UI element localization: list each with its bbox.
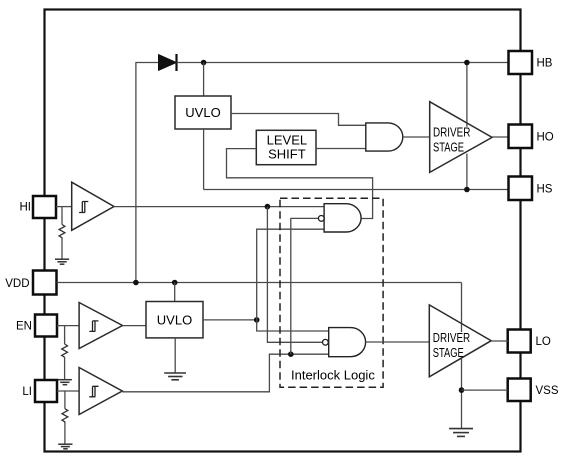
schmitt buffer (LI input) [79,368,122,415]
svg-text:VDD: VDD [5,278,29,290]
interlock logic dashed box [280,198,383,387]
ground: EN pulldown [58,380,72,385]
pin VDD [33,271,57,295]
svg-text:UVLO: UVLO [157,312,192,327]
svg-text:Interlock Logic: Interlock Logic [291,368,375,383]
junction dot: diode/UVLO node [201,60,207,66]
pin HI [33,196,56,218]
pin HO [509,125,533,149]
wire: HI pin to schmitt buffer [56,206,72,208]
svg-text:EN: EN [16,321,32,333]
wire: UVLO2 output to interlock enable node [203,319,257,321]
schmitt symbol EN [89,321,98,332]
AND gate (interlock, low side) [329,328,366,357]
junction dot HI branch [265,204,271,210]
ground: VSS [449,429,473,437]
schmitt buffer (EN input) [79,303,122,349]
wire: AND output to driver stage [403,136,430,138]
junction dot enable node [254,317,260,323]
svg-text:UVLO: UVLO [185,105,220,120]
svg-text:VSS: VSS [536,385,559,397]
AND gate U3 (high-side UVLO gating) [366,123,403,151]
UVLO block (low side) [146,302,203,338]
AND gate (interlock, high side) [324,204,361,232]
svg-text:STAGE: STAGE [433,345,464,360]
junction dot LI branch [288,351,294,357]
junction dot HB rail [464,60,470,66]
wire: EN buffer to low-side UVLO [123,325,147,327]
wire: VDD rail [57,282,462,284]
pin LI [35,380,57,402]
wire: level shift input from interlock AND output [227,149,373,219]
wire: HS rail to HS pin [204,189,509,191]
svg-text:LO: LO [536,336,551,348]
wire: driver output to LO pin [491,340,508,342]
svg-text:HI: HI [20,202,32,214]
wire: low-side gate output to driver [366,341,430,343]
wire: EN pin to buffer [57,325,79,327]
wire: LI branch to high-side gate inverted input [291,218,319,354]
wire: diode anode from VDD riser [136,63,160,283]
pin HS [509,177,533,201]
pin EN [35,315,57,337]
svg-text:HO: HO [537,131,554,143]
wire: LEVEL SHIFT output to AND gate [316,148,366,150]
schmitt symbol HI [79,202,88,213]
svg-text:DRIVER: DRIVER [433,330,470,345]
wire: HB-HS rail through driver [466,63,468,190]
wire: UVLO2 to ground [174,338,176,373]
svg-text:HS: HS [537,183,553,195]
junction dot VDD/UVLO2 [172,280,178,286]
wire: enable to high-side gate input [257,229,324,320]
inverting bubble on high-side gate [318,216,324,222]
svg-text:LEVEL: LEVEL [267,132,307,147]
wire: LI buffer output to low-side gate [122,354,328,392]
pin LO [508,330,531,353]
svg-text:SHIFT: SHIFT [268,147,306,162]
pin VSS [508,379,531,402]
inverting bubble on low-side gate [323,339,329,345]
resistor: LI pulldown [62,391,68,444]
driver stage text (high side) [432,125,473,155]
wire: HB rail (diode cathode to HB pin) [177,62,509,64]
wire: UVLO output to AND gate (stepped) [231,114,366,126]
svg-text:STAGE: STAGE [433,140,464,155]
wire: VDD rail down through low-side driver to ground [461,283,463,429]
ground: HI pulldown [55,259,69,264]
wire: VSS node to VSS pin [462,389,508,391]
wire: HI branch down to low-side gate inverted input [267,207,322,343]
driver stage triangle (high side) [430,102,492,173]
pin HB [509,51,533,74]
ground: UVLO2 [164,373,186,380]
wire: VDD to low-side UVLO [174,283,176,302]
diode D1 (bootstrap) [159,54,177,71]
wire: HB node down to UVLO top [203,63,205,97]
wire: UVLO bottom to HS rail [203,129,205,190]
driver stage triangle (low side) [429,305,491,377]
schmitt buffer (HI input) [72,182,114,230]
driver stage text (low side) [431,330,472,360]
wire: HI buffer output to interlock [114,206,324,208]
UVLO block (high side) [175,96,231,129]
LEVEL SHIFT block [256,130,316,164]
svg-text:HB: HB [537,57,553,69]
svg-text:LI: LI [22,386,32,398]
schmitt symbol LI [89,386,98,397]
svg-text:DRIVER: DRIVER [433,125,470,140]
resistor: EN pulldown [62,326,68,380]
ground: LI pulldown [58,444,72,449]
wire: driver output to HO pin [492,136,508,138]
junction dot HS rail [464,187,470,193]
junction dot VSS node [459,387,465,393]
wire: LI pin to buffer [57,390,79,392]
wire: enable to low-side gate input [257,320,329,331]
resistor: HI pulldown [59,207,65,260]
junction dot VDD/diode riser [133,280,139,286]
